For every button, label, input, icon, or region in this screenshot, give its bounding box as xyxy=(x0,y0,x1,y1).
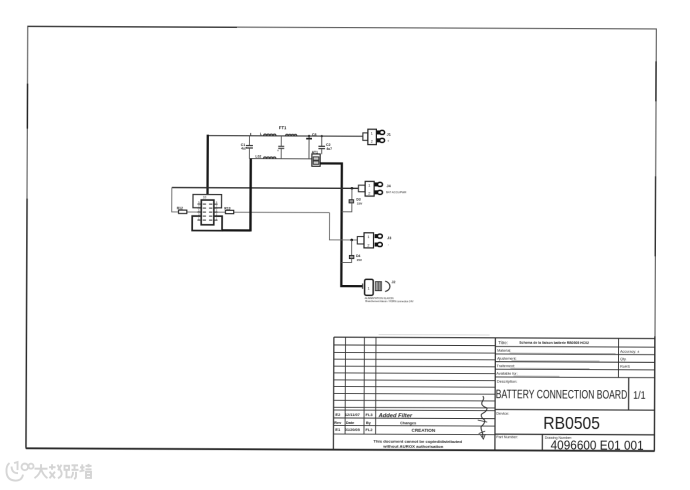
wire vertical feed to CN1 pin 10 xyxy=(206,135,209,201)
capacitor C2 xyxy=(318,136,332,154)
wire R12 R13 rail with loop edge xyxy=(172,188,358,240)
available row xyxy=(496,372,559,376)
capacitor C1 xyxy=(241,136,253,159)
revision grid rows xyxy=(333,345,495,435)
watermark logo xyxy=(6,462,33,481)
revision grid columns xyxy=(345,337,376,434)
connector J3 xyxy=(357,233,391,248)
junction node J3 / D4 xyxy=(350,239,353,242)
CN1 pin numbers xyxy=(198,201,218,220)
CN1 pins xyxy=(197,204,217,220)
wire J4 feed rail xyxy=(172,187,359,190)
wire top bus xyxy=(208,135,363,138)
frame border xyxy=(26,26,656,451)
drawing number value xyxy=(551,437,644,452)
title block main rows xyxy=(495,338,655,451)
capacitor C8 xyxy=(306,133,316,159)
connector J1 xyxy=(363,129,391,145)
disclaimer text xyxy=(373,440,462,449)
suppressor AT1 xyxy=(312,150,321,166)
treatment row xyxy=(497,364,631,369)
revision header row xyxy=(334,421,416,425)
wire lower filter rail xyxy=(249,158,312,160)
diode D4 xyxy=(341,240,362,263)
sheet 1/1 xyxy=(633,390,646,402)
device label xyxy=(496,411,509,416)
diode D3 xyxy=(342,188,363,212)
part number label xyxy=(496,435,518,439)
capacitor mid filter xyxy=(277,136,284,159)
filter FT1 label xyxy=(279,125,287,130)
resistor R13 xyxy=(224,206,233,213)
device RB0505 xyxy=(543,413,600,433)
adjust row xyxy=(497,357,627,362)
junction node C8 tap on top bus xyxy=(308,135,310,137)
connector CN1 block xyxy=(192,194,250,230)
connector J4 xyxy=(358,181,406,196)
drawing number label xyxy=(545,436,572,440)
material row xyxy=(497,349,639,354)
inductor L2 xyxy=(285,134,296,136)
title row text xyxy=(498,340,589,345)
revision row E1 xyxy=(335,427,436,433)
description label xyxy=(497,379,518,384)
revision row E2 xyxy=(335,412,413,419)
junction node J4 / D3 xyxy=(351,187,354,190)
wire thick C1 branch down xyxy=(249,159,252,232)
junction node C2 tap on top bus xyxy=(321,135,323,137)
node tick at C1 top xyxy=(250,133,252,136)
resistor R12 xyxy=(177,206,187,213)
description BATTERY CONNECTION BOARD xyxy=(496,387,628,402)
inductor L02 xyxy=(255,155,276,159)
watermark text strokes xyxy=(34,464,91,479)
title block outline xyxy=(333,334,655,451)
signature scribble xyxy=(478,396,488,439)
horn connector J2 xyxy=(363,279,414,303)
wire thick AT1 output to bus down xyxy=(319,163,363,286)
inductor L1 xyxy=(260,132,276,136)
